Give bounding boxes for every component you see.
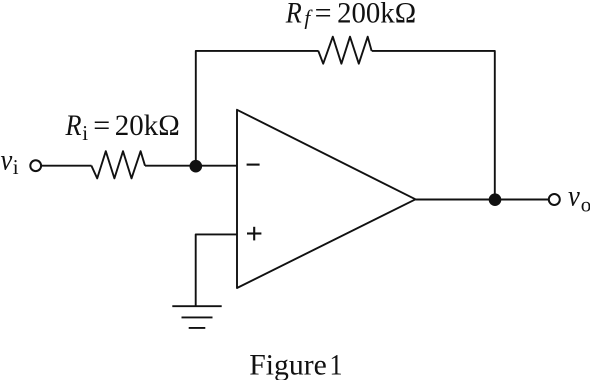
- svg-text:v: v: [568, 180, 580, 213]
- svg-text:o: o: [581, 192, 590, 216]
- svg-text:i: i: [82, 121, 88, 145]
- svg-text:=: =: [93, 109, 110, 142]
- svg-text:200kΩ: 200kΩ: [337, 0, 416, 30]
- svg-text:Figure: Figure: [249, 348, 327, 380]
- svg-text:20kΩ: 20kΩ: [115, 109, 180, 142]
- svg-text:1: 1: [330, 348, 343, 380]
- svg-text:v: v: [1, 144, 13, 177]
- svg-text:=: =: [315, 0, 332, 30]
- svg-text:R: R: [65, 109, 82, 142]
- svg-text:R: R: [285, 0, 302, 30]
- svg-text:i: i: [13, 155, 19, 179]
